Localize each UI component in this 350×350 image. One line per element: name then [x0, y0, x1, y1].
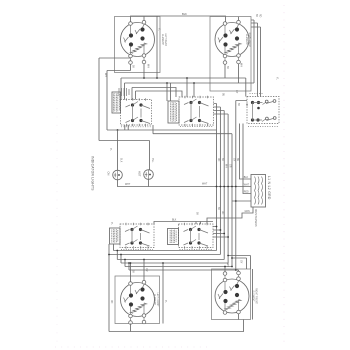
- label GY: [240, 260, 242, 264]
- infinite switch A: label text strokes: [113, 93, 119, 112]
- text L1 N L2 GRD: [267, 176, 271, 200]
- surface switch SW2 right rear: enclosure box: [210, 17, 251, 92]
- wire: TL top-right pigtail: [143, 16, 145, 21]
- label row under switch E: [180, 249, 213, 251]
- wire: SW4 bottom stub: [238, 314, 240, 320]
- junction dots on bundle at WHT row: [216, 186, 218, 188]
- svg-text:L1 N L2 GRD: L1 N L2 GRD: [267, 176, 271, 200]
- infinite switch B: switch arms: [184, 99, 209, 124]
- label WH: [147, 64, 149, 68]
- label GY: [232, 158, 234, 162]
- infinite switch B: label box: [168, 101, 179, 123]
- label WH: [226, 263, 228, 267]
- label YL: [109, 148, 111, 152]
- wire: TR bottom pins down: [225, 64, 239, 83]
- surface switch SW1 left rear: lower plug pins: [129, 61, 133, 65]
- terminal block fuse links: [255, 177, 256, 205]
- svg-text:RD: RD: [221, 211, 223, 215]
- label YL: [275, 77, 277, 81]
- label BU: [221, 93, 223, 97]
- wire: SW3 right outer: [162, 263, 164, 324]
- wire: lamp ON top lead: [117, 130, 119, 170]
- svg-text:WH: WH: [104, 73, 106, 77]
- svg-text:YEL: YEL: [151, 158, 153, 163]
- svg-text:GY: GY: [240, 260, 242, 264]
- infinite switch E: label box: [168, 229, 179, 245]
- scan artifact bottom dots: [55, 346, 210, 348]
- svg-text:GY: GY: [232, 158, 234, 162]
- surface switch SW2 right rear: heating element coil: [225, 43, 241, 53]
- wire: BLK row2 top: [154, 222, 213, 225]
- svg-text:WHT: WHT: [244, 184, 250, 186]
- label RD: [110, 300, 112, 304]
- selector switch C: dashed box: [247, 97, 279, 124]
- wire: lamp HOT top lead: [149, 141, 151, 170]
- svg-text:WH: WH: [240, 63, 242, 67]
- selector switch C: label row above: [250, 93, 264, 95]
- infinite switch A: internal links: [133, 105, 142, 121]
- svg-text:OR: OR: [145, 268, 147, 272]
- label BK: [196, 212, 198, 216]
- surface switch SW4 right front: pin stubs: [225, 281, 239, 311]
- wire: BLK top run L1: [131, 16, 226, 23]
- svg-text:BLK: BLK: [182, 12, 187, 16]
- junction dots row1 feeds: [143, 77, 145, 79]
- svg-text:BU: BU: [221, 93, 223, 97]
- infinite switch A: dashed switch box: [121, 100, 152, 126]
- label row under switch C: [248, 126, 278, 128]
- wires: switch B to bundle: [214, 101, 248, 115]
- surface switch SW3 left front: switch body circle: [121, 283, 155, 317]
- wire: row4 into block: [232, 200, 251, 202]
- svg-text:WH: WH: [147, 64, 149, 68]
- wire: h-run y130: [107, 129, 217, 131]
- svg-text:ELEMENT: ELEMENT: [245, 34, 247, 45]
- svg-text:INDICATOR LIGHTS: INDICATOR LIGHTS: [91, 156, 95, 191]
- label RD: [217, 158, 219, 162]
- svg-text:WH: WH: [226, 263, 228, 267]
- svg-text:GY: GY: [235, 90, 237, 94]
- surface switch SW3 left front: contact dots: [129, 293, 133, 297]
- surface switch SW2 right rear: lower plug pins: [223, 61, 227, 65]
- infinite switch B: contacts: [189, 101, 192, 104]
- surface switch SW3 left front: label: [153, 292, 158, 307]
- svg-text:RD: RD: [217, 158, 219, 162]
- infinite switch D: terminal ticks: [126, 223, 148, 249]
- surface switch SW4 right front: upper plug pins: [223, 272, 227, 276]
- label YL: [164, 300, 166, 304]
- infinite switch A: label box: [112, 92, 121, 113]
- wires: SW4 box right feeds: [228, 256, 250, 270]
- label RD: [221, 211, 223, 215]
- surface switch SW1 left rear: contact dots: [129, 33, 133, 37]
- infinite switch E: switch arms: [184, 226, 209, 246]
- center harness bundle: [217, 101, 236, 271]
- wires: C down to terminal block: [240, 124, 252, 194]
- label BK: [217, 207, 219, 211]
- svg-text:BK: BK: [132, 65, 134, 69]
- wire: B label box feeds: [167, 78, 194, 101]
- wire: SW4 right outer: [252, 269, 254, 320]
- infinite switch E: label text strokes: [170, 230, 176, 244]
- label YEL: [151, 158, 153, 163]
- svg-text:RED: RED: [244, 192, 249, 194]
- infinite switch D: dashed switch box: [120, 224, 154, 248]
- wire: h-run y91: [136, 91, 183, 100]
- terminal block TB1 body: [251, 175, 266, 208]
- wires: switch E to bundle: [213, 227, 228, 238]
- infinite switch D: contacts: [130, 228, 133, 231]
- wire: SW4 right pin from bundle: [236, 269, 239, 271]
- wire: TL lower-left to left bus: [99, 58, 131, 141]
- infinite switch D: label box: [110, 228, 121, 244]
- svg-text:BLK: BLK: [244, 177, 249, 179]
- surface switch SW2 right rear: pin stubs: [225, 24, 239, 54]
- label BK: [132, 65, 134, 69]
- wire: bottom return run: [109, 320, 244, 332]
- wire: GRN ground run: [207, 207, 253, 224]
- surface switch SW1 left rear: enclosure box: [115, 17, 161, 73]
- text main harness: [254, 209, 257, 227]
- surface switch SW4 right front: switch body circle: [215, 279, 249, 313]
- surface switch SW1 left rear: terminal pins on circle: [129, 22, 133, 26]
- label WH: [104, 73, 106, 77]
- surface switch SW2 right rear: terminal pins on circle: [223, 22, 227, 26]
- infinite switch A: contacts: [131, 103, 134, 106]
- surface switch SW3 left front: switch arms: [124, 289, 141, 303]
- label WH: [240, 63, 242, 67]
- label OR: [145, 268, 147, 272]
- svg-text:RD: RD: [258, 14, 260, 18]
- svg-text:BK: BK: [132, 270, 134, 274]
- svg-text:OR: OR: [228, 164, 230, 168]
- surface switch SW3 left front: enclosure box: [115, 276, 160, 324]
- wire: h-run y83: [125, 20, 255, 100]
- surface switch SW4 right front: label: [252, 288, 257, 304]
- surface switch SW2 right rear: label: [245, 32, 251, 46]
- wire: TL box right wire down: [156, 16, 158, 78]
- svg-text:MAIN HARNESS: MAIN HARNESS: [254, 209, 257, 227]
- wire: TR top-right pigtail: [238, 17, 240, 21]
- svg-text:WHT: WHT: [202, 184, 208, 186]
- label YL: [110, 222, 112, 226]
- infinite switch A: switch arms: [126, 102, 151, 124]
- surface switch SW2 right rear: switch body circle: [215, 23, 249, 57]
- label BK: [226, 66, 228, 70]
- infinite switch B: terminal ticks: [185, 96, 208, 126]
- svg-text:ELEMENT: ELEMENT: [153, 294, 155, 305]
- junction dots staircase: [108, 254, 110, 256]
- infinite switch E: internal links: [191, 230, 200, 244]
- junction dots row2: [216, 226, 218, 228]
- label RD at C feed: [245, 103, 247, 107]
- infinite switch D: label text strokes: [112, 229, 118, 243]
- selector switch C: contacts: [251, 101, 254, 104]
- infinite switch E: contacts: [189, 228, 192, 231]
- svg-text:BK: BK: [237, 103, 239, 107]
- svg-text:RD: RD: [245, 103, 247, 107]
- surface switch SW1 left rear: heating element coil: [130, 43, 146, 53]
- svg-text:BLK: BLK: [172, 220, 177, 222]
- surface switch SW4 right front: terminal pins on circle: [223, 278, 227, 282]
- wires: down to SW4 pins: [225, 267, 239, 272]
- surface switch SW1 left rear: switch body circle: [121, 23, 155, 57]
- svg-text:BK: BK: [217, 207, 219, 211]
- svg-text:BU: BU: [236, 158, 238, 162]
- surface switch SW1 left rear: label: [161, 33, 167, 46]
- svg-text:WH: WH: [225, 164, 227, 168]
- label BU: [236, 158, 238, 162]
- svg-text:RIGHT REAR: RIGHT REAR: [248, 32, 251, 46]
- infinite switch B: label text strokes: [171, 102, 177, 122]
- surface switch SW4 right front: contact dots: [223, 290, 227, 294]
- label row under switch A: [121, 126, 151, 128]
- surface switch SW4 right front: heating element coil: [225, 299, 241, 309]
- svg-text:RIGHT FRONT: RIGHT FRONT: [255, 288, 257, 304]
- svg-text:ON: ON: [107, 172, 111, 176]
- svg-text:BK: BK: [255, 14, 257, 18]
- staircase feeds from switch D: [109, 244, 129, 332]
- junction: [117, 129, 119, 131]
- surface switch SW4 right front: switch arms: [218, 286, 235, 300]
- wire: A bottom stubs: [125, 125, 128, 130]
- infinite switch D: internal links: [132, 230, 141, 244]
- surface switch SW1 left rear: pin stubs: [131, 24, 145, 54]
- label BK: [132, 270, 134, 274]
- selector switch C: right terminals: [265, 100, 268, 103]
- surface switch SW3 left front: lower plug pins: [129, 321, 133, 325]
- label HOT: [138, 171, 142, 177]
- label GY: [235, 90, 237, 94]
- wire: h-run y87.5: [132, 88, 176, 100]
- surface switch SW4 right front: enclosure box: [212, 269, 251, 320]
- svg-text:GRN: GRN: [245, 211, 250, 213]
- infinite switch B: dashed switch box: [179, 97, 214, 125]
- wires: down to SW3 pins: [131, 260, 145, 282]
- infinite switch D: switch arms: [125, 226, 150, 246]
- indicator lamp HOT: [144, 170, 154, 180]
- infinite switch A: terminal ticks: [127, 98, 146, 126]
- scan artifact dots: [283, 5, 285, 345]
- wire: SW3 bottom stub: [130, 324, 132, 332]
- svg-text:ELEMENT: ELEMENT: [161, 34, 163, 45]
- label BK at C feed: [237, 103, 239, 107]
- svg-text:LEFT FRONT: LEFT FRONT: [156, 292, 158, 307]
- surface switch SW3 left front: pin stubs: [131, 284, 145, 314]
- svg-text:BK: BK: [226, 66, 228, 70]
- label OR: [228, 164, 230, 168]
- infinite switch B: internal links: [191, 103, 200, 121]
- infinite switch E: dashed switch box: [179, 224, 214, 248]
- label BK: [255, 14, 257, 18]
- label RD: [258, 14, 260, 18]
- surface switch SW1 left rear: switch arms: [124, 29, 141, 43]
- selector switch C: links and arms: [253, 102, 274, 122]
- svg-text:LEFT REAR: LEFT REAR: [164, 33, 167, 46]
- svg-text:RD: RD: [110, 300, 112, 304]
- terminal id text above switch A: [119, 88, 129, 96]
- label BK: [221, 158, 223, 162]
- wire: WHT lamp return to terminal block: [118, 179, 252, 186]
- surface switch SW3 left front: heating element coil: [130, 303, 146, 313]
- surface switch SW2 right rear: switch arms: [218, 29, 235, 43]
- indicator lamp ON: [113, 170, 123, 180]
- label BLK: [120, 158, 122, 163]
- junction TL right: [156, 77, 158, 79]
- label ON: [107, 172, 111, 176]
- wire: h-run y78: [121, 64, 246, 100]
- svg-text:BLK: BLK: [120, 158, 122, 163]
- svg-text:HOT: HOT: [138, 171, 142, 177]
- wire: TR right outer wires to C: [251, 23, 261, 97]
- lower distribution wires: [109, 251, 237, 271]
- surface switch SW3 left front: terminal pins on circle: [129, 282, 133, 286]
- infinite switch E: terminal ticks: [185, 223, 208, 249]
- vertical text INDICATOR LIGHTS: [91, 156, 95, 191]
- surface switch SW2 right rear: contact dots: [223, 33, 227, 37]
- svg-text:WHT: WHT: [125, 184, 131, 186]
- label row under switch B: [180, 126, 213, 128]
- label WH: [225, 164, 227, 168]
- label YL: [158, 28, 160, 32]
- wire: h-run y140.5: [99, 140, 150, 142]
- svg-text:BK: BK: [221, 158, 223, 162]
- wire: h-run y133.7: [153, 125, 232, 136]
- svg-text:BK: BK: [196, 212, 198, 216]
- wire: TL plug pin left run: [107, 65, 131, 131]
- label row under switch D: [121, 249, 153, 251]
